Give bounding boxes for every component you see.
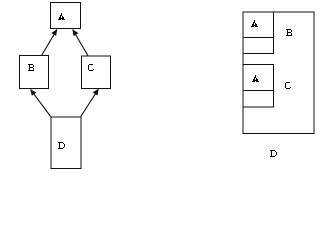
- node B (left graph): [20, 56, 49, 89]
- label B (right diagram): [286, 29, 292, 36]
- box A copy inside B (right diagram): [243, 12, 274, 38]
- edge D to B (arrow): [30, 89, 51, 117]
- edge D to C (arrow): [81, 89, 99, 118]
- edge B to A (arrow): [42, 29, 58, 56]
- node A (left graph): [51, 3, 81, 29]
- box A copy inside C (right diagram): [243, 65, 274, 91]
- node D (left graph): [51, 117, 81, 169]
- node C (left graph): [82, 56, 111, 89]
- label D (right diagram, below box): [270, 150, 277, 157]
- edge C to A (arrow): [72, 29, 88, 56]
- box C own code (right diagram, empty): [243, 91, 274, 108]
- box B own code (right diagram, empty): [243, 38, 274, 54]
- container box D (right diagram): [243, 12, 314, 134]
- label C (right diagram): [285, 82, 291, 89]
